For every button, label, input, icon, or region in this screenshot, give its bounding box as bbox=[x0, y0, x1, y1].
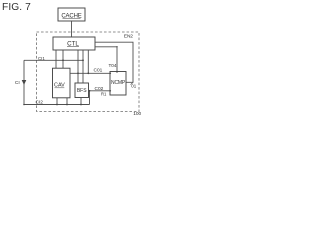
svg-text:100: 100 bbox=[133, 111, 141, 117]
svg-text:R1: R1 bbox=[101, 91, 107, 96]
block BFS bbox=[75, 83, 89, 98]
junction dots bbox=[23, 46, 118, 105]
dashed enclosure EN2 bbox=[37, 32, 140, 112]
label 01 bbox=[131, 83, 133, 85]
svg-text:C01: C01 bbox=[94, 68, 103, 74]
wire CAV bottom drop 2 bbox=[66, 98, 68, 105]
wire CTL drop 5 to C01 wire bbox=[87, 50, 89, 73]
wire CTL right lower to CMP top bbox=[95, 47, 117, 72]
wire CTL drop 3 to BFS bbox=[77, 50, 79, 83]
block CACHE (top box) bbox=[58, 8, 85, 21]
svg-text:T04: T04 bbox=[108, 63, 116, 68]
wire CI2 horizontal bottom bbox=[24, 104, 90, 106]
wire C01 from CAV to CMP bbox=[70, 72, 110, 74]
wire riser CI2 to C02 bbox=[89, 91, 91, 105]
wire CI1 horizontal bbox=[24, 59, 83, 61]
svg-text:EN2: EN2 bbox=[124, 34, 133, 40]
wire top box to CTL bbox=[71, 21, 73, 37]
svg-text:CTL: CTL bbox=[67, 40, 79, 47]
block CAV bbox=[53, 68, 71, 98]
svg-text:NCMP: NCMP bbox=[111, 80, 126, 86]
svg-text:FIG. 7: FIG. 7 bbox=[2, 2, 31, 13]
svg-text:01: 01 bbox=[131, 83, 136, 88]
wire BFS bottom drop bbox=[80, 98, 82, 105]
arrow on CI wire bbox=[22, 80, 27, 85]
block CMP bbox=[110, 72, 126, 96]
svg-text:CI1: CI1 bbox=[38, 56, 45, 61]
wire CAV bottom drop 1 bbox=[56, 98, 58, 105]
svg-text:CI: CI bbox=[15, 80, 20, 86]
wire CI left vertical bbox=[23, 60, 25, 104]
wire CTL drop 4 to BFS bbox=[82, 50, 84, 83]
block CTL bbox=[53, 37, 95, 50]
wire C02 from BFS to CMP bbox=[89, 90, 111, 92]
svg-text:CI2: CI2 bbox=[36, 100, 44, 106]
wire CTL drop 2 to CAV bbox=[62, 50, 64, 68]
svg-text:BFS: BFS bbox=[77, 88, 87, 94]
wire CTL right upper to vertical bbox=[95, 42, 133, 82]
wire CTL drop 1 to CAV bbox=[55, 50, 57, 68]
